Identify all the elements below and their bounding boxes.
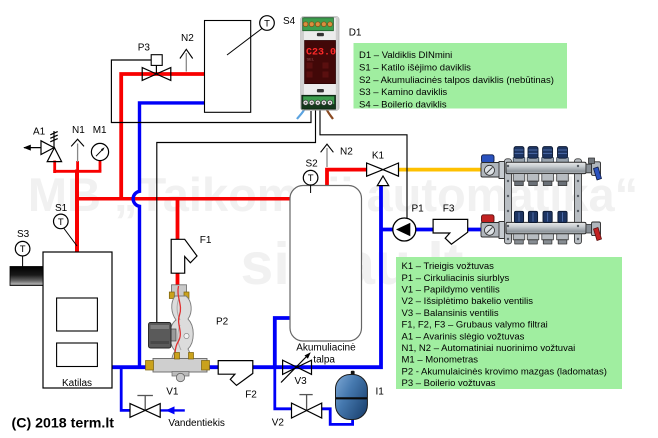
svg-text:Katilas: Katilas — [62, 378, 92, 389]
svg-text:N2: N2 — [181, 33, 194, 44]
svg-text:(C) 2018 term.lt: (C) 2018 term.lt — [12, 416, 115, 432]
svg-text:T: T — [264, 18, 270, 29]
svg-text:P3 – Boilerio vožtuvas: P3 – Boilerio vožtuvas — [402, 378, 496, 389]
svg-text:V3 – Balansinis ventilis: V3 – Balansinis ventilis — [402, 308, 499, 319]
svg-text:P1 – Cirkuliacinis siurblys: P1 – Cirkuliacinis siurblys — [402, 273, 510, 284]
svg-text:V2 – Išsiplėtimo bakelio venti: V2 – Išsiplėtimo bakelio ventilis — [402, 296, 534, 307]
svg-text:Akumuliacinė: Akumuliacinė — [296, 343, 356, 354]
svg-text:S4: S4 — [283, 16, 296, 27]
svg-text:SEL: SEL — [307, 57, 315, 62]
svg-text:V1 – Papildymo ventilis: V1 – Papildymo ventilis — [402, 285, 500, 296]
svg-text:S4 – Boilerio daviklis: S4 – Boilerio daviklis — [359, 100, 447, 111]
svg-text:F1, F2, F3 – Grubaus valymo fi: F1, F2, F3 – Grubaus valymo filtrai — [402, 320, 548, 331]
svg-text:K1: K1 — [372, 151, 385, 162]
svg-text:F3: F3 — [443, 204, 455, 215]
svg-text:S3 – Kamino daviklis: S3 – Kamino daviklis — [359, 87, 447, 98]
svg-text:N2: N2 — [340, 147, 353, 158]
svg-text:S2: S2 — [306, 159, 319, 170]
svg-text:A1 – Avarinis slėgio vožtuvas: A1 – Avarinis slėgio vožtuvas — [402, 331, 525, 342]
svg-text:S1 – Katilo išėjimo daviklis: S1 – Katilo išėjimo daviklis — [359, 62, 471, 73]
svg-text:T: T — [308, 173, 314, 184]
svg-text:V1: V1 — [166, 387, 179, 398]
svg-text:F2: F2 — [245, 390, 257, 401]
svg-text:D1 – Valdiklis DINmini: D1 – Valdiklis DINmini — [359, 50, 452, 61]
svg-text:V3: V3 — [295, 376, 308, 387]
svg-text:T: T — [58, 217, 64, 228]
svg-text:S1: S1 — [55, 203, 68, 214]
svg-text:Vandentiekis: Vandentiekis — [168, 418, 225, 429]
svg-text:N1: N1 — [72, 125, 85, 136]
svg-text:I1: I1 — [376, 387, 385, 398]
svg-text:N1, N2 – Automatiniai nuorinim: N1, N2 – Automatiniai nuorinimo vožtuvai — [402, 343, 576, 354]
svg-text:P2: P2 — [216, 317, 229, 328]
svg-text:P2 - Akumulaicinės krovimo maz: P2 - Akumulaicinės krovimo mazgas (ladom… — [402, 366, 607, 377]
svg-text:T: T — [20, 244, 26, 255]
svg-text:S2 – Akumuliacinės talpos davi: S2 – Akumuliacinės talpos daviklis (nebū… — [359, 75, 554, 86]
svg-text:M1: M1 — [93, 125, 107, 136]
svg-text:D1: D1 — [349, 28, 362, 39]
svg-text:talpa: talpa — [313, 355, 335, 366]
svg-text:S3: S3 — [17, 229, 30, 240]
svg-text:V2: V2 — [272, 418, 285, 429]
svg-text:K1 – Trieigis vožtuvas: K1 – Trieigis vožtuvas — [402, 261, 495, 272]
svg-text:P1: P1 — [412, 204, 425, 215]
svg-text:P3: P3 — [138, 43, 151, 54]
svg-text:M1 – Monometras: M1 – Monometras — [402, 355, 479, 366]
svg-text:A1: A1 — [33, 127, 46, 138]
svg-text:F1: F1 — [200, 235, 212, 246]
